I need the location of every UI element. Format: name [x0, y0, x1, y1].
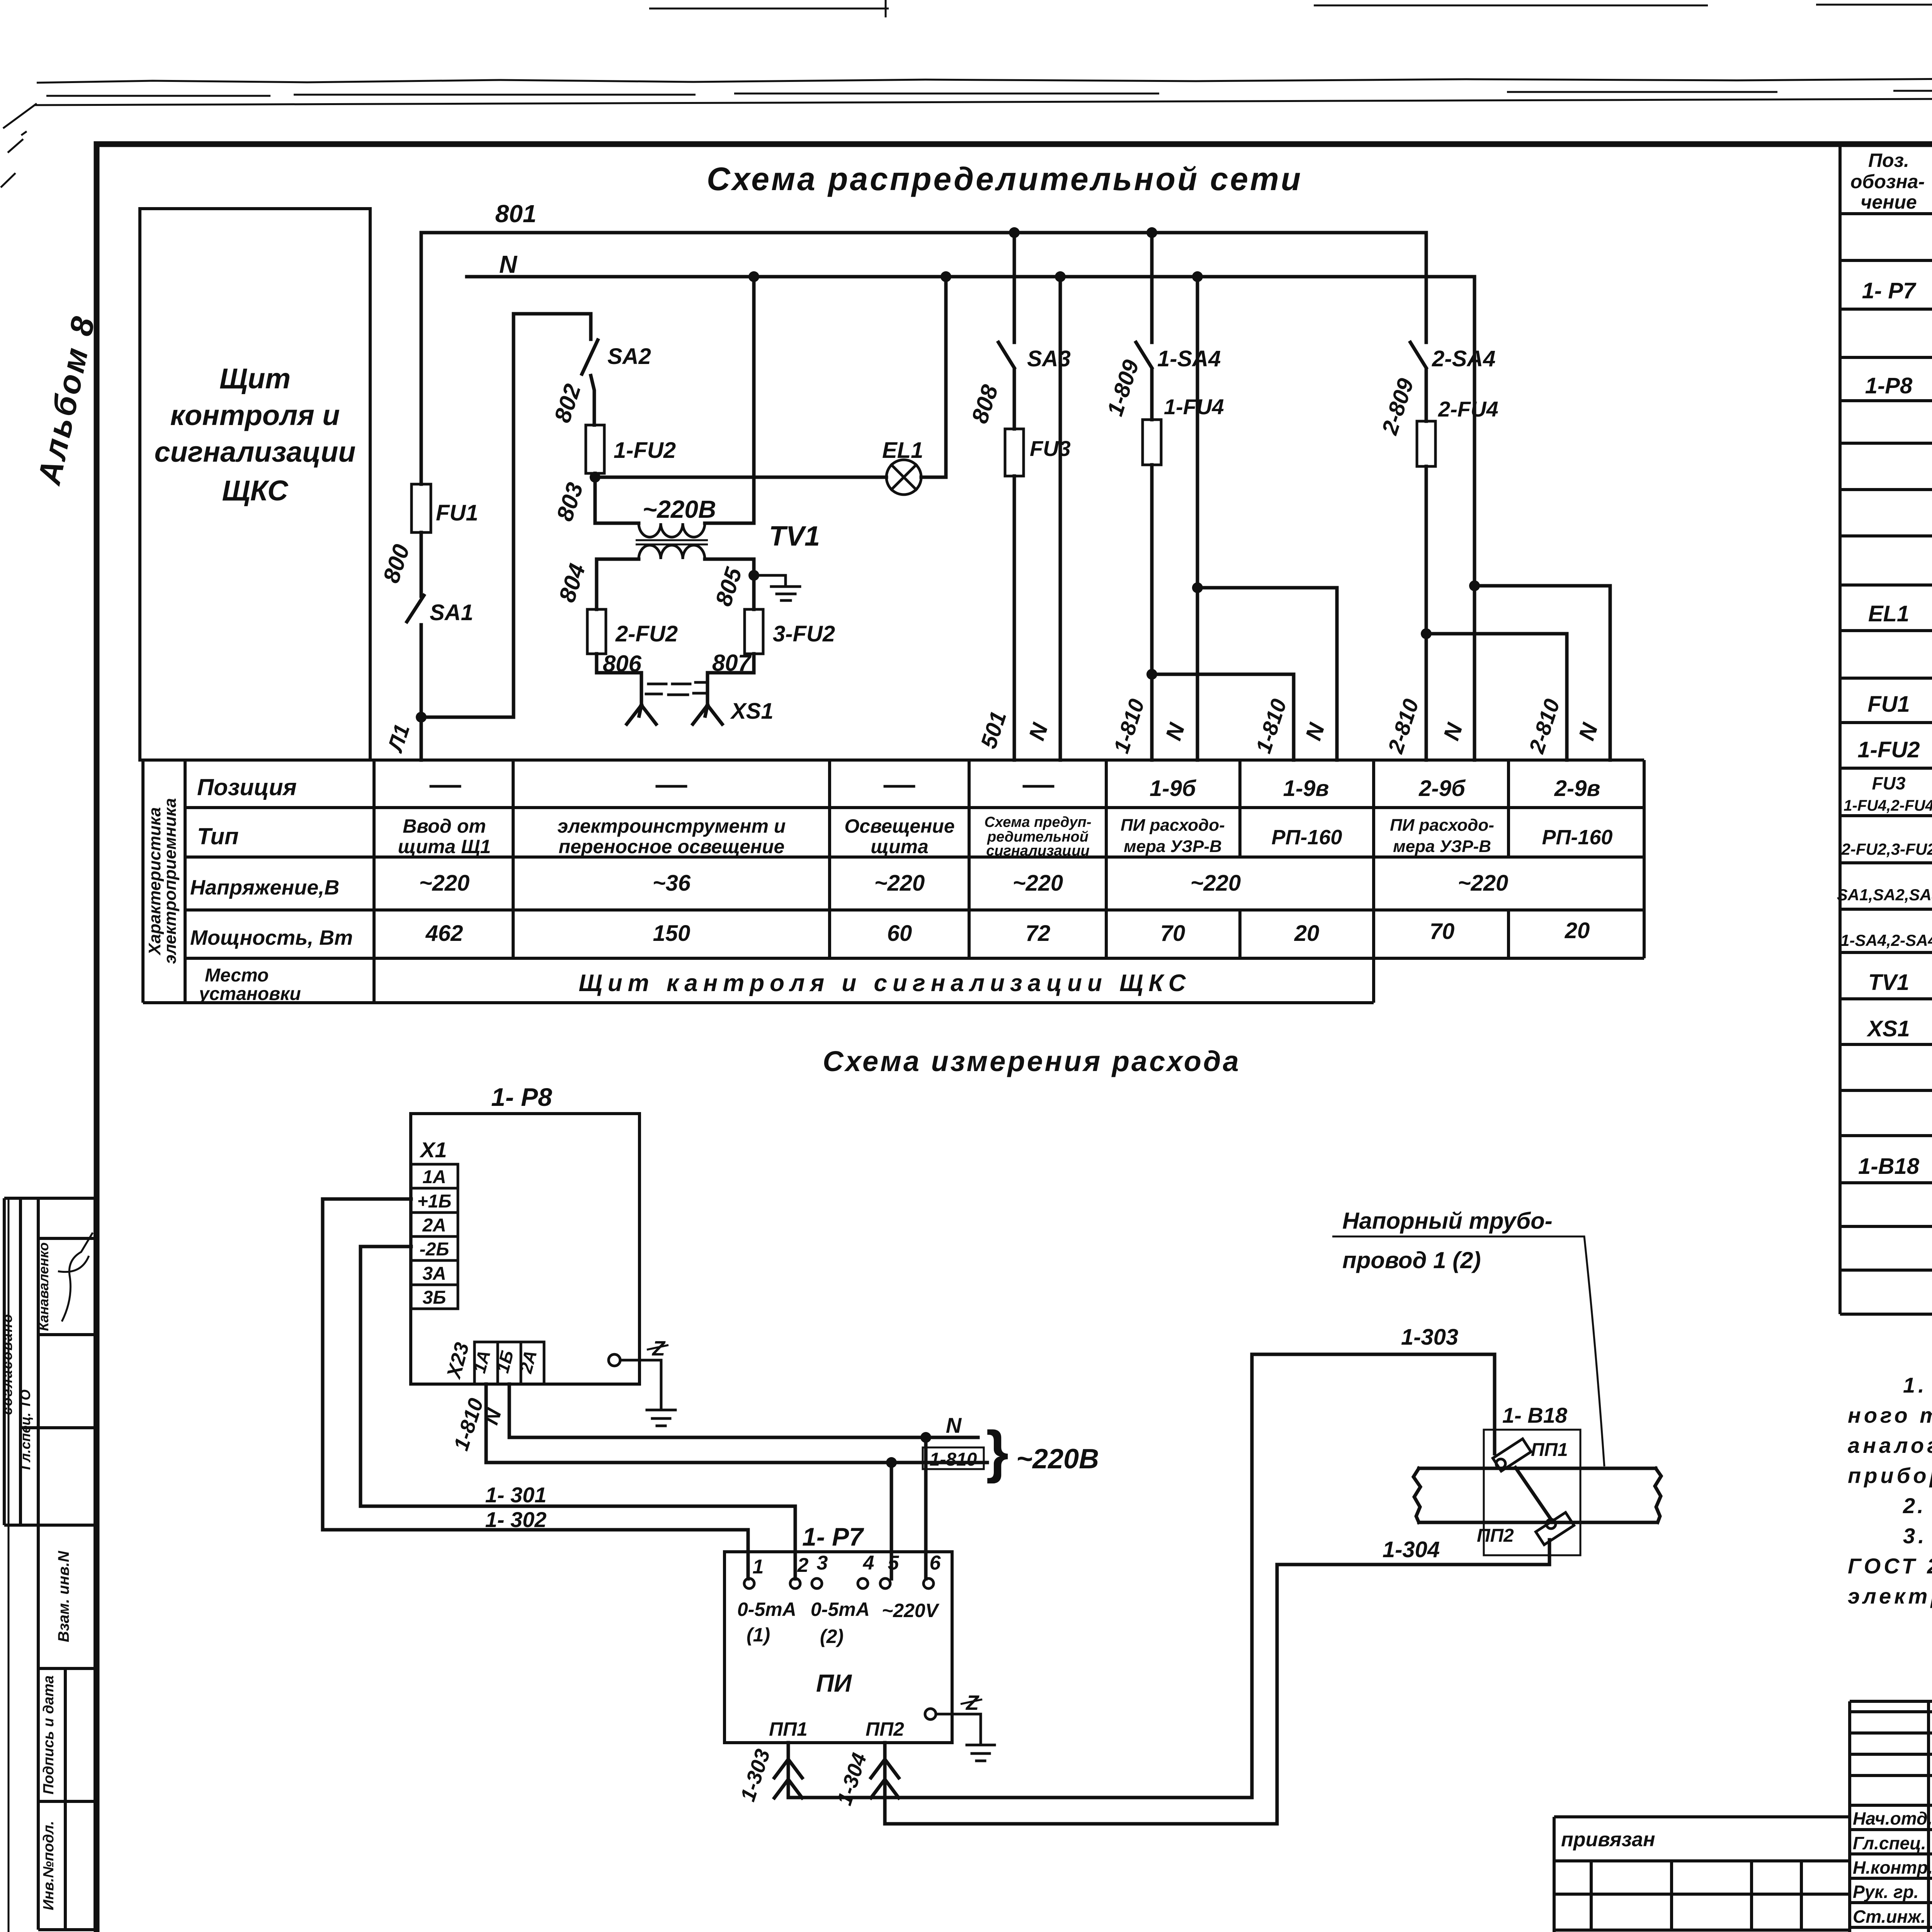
svg-text:~220: ~220: [874, 871, 925, 896]
svg-text:Щит: Щит: [219, 362, 291, 395]
svg-text:Мощность, Вт: Мощность, Вт: [190, 926, 353, 949]
svg-text:1-FU2: 1-FU2: [614, 438, 676, 463]
svg-text:Гл.спец. ТО: Гл.спец. ТО: [17, 1389, 33, 1470]
svg-text:X1: X1: [419, 1138, 447, 1162]
TV1 secondary winding: [639, 545, 705, 559]
TV1 primary right to N: [705, 277, 754, 523]
svg-text:Рук. гр.: Рук. гр.: [1853, 1882, 1919, 1902]
fuse 2-FU2: [587, 609, 606, 654]
wire 1-809 drop: [1150, 233, 1154, 342]
svg-text:~220: ~220: [419, 871, 470, 896]
recorder 1-P8 box: [411, 1114, 639, 1384]
svg-text:ПП1: ПП1: [769, 1718, 808, 1740]
svg-text:3Б: 3Б: [423, 1287, 446, 1308]
ground terminal 1-P8: [609, 1354, 620, 1366]
svg-text:согласовано: согласовано: [0, 1313, 15, 1415]
transducer PP1: [1493, 1439, 1531, 1471]
svg-text:3: 3: [817, 1552, 828, 1574]
svg-text:FU3: FU3: [1030, 436, 1071, 461]
svg-text:провод 1 (2): провод 1 (2): [1342, 1247, 1481, 1273]
svg-text:N: N: [499, 250, 518, 278]
wire to pin5: [890, 1463, 893, 1579]
svg-text:2-FU2,3-FU2: 2-FU2,3-FU2: [1841, 840, 1932, 858]
dot TV1 on N: [748, 271, 759, 282]
svg-text:обозна-: обозна-: [1850, 171, 1925, 192]
svg-text:мера УЗР-В: мера УЗР-В: [1124, 837, 1222, 856]
svg-text:70: 70: [1160, 921, 1185, 946]
lamp EL1: [886, 460, 921, 495]
svg-text:XS1: XS1: [730, 699, 774, 724]
svg-text:70: 70: [1430, 919, 1455, 944]
dot 805: [748, 570, 759, 581]
bus N: [467, 275, 1475, 279]
bus 801: [421, 231, 1426, 235]
svg-text:806: 806: [603, 651, 642, 677]
ground terminal PI: [925, 1709, 936, 1719]
svg-text:Н.контр.: Н.контр.: [1853, 1857, 1932, 1878]
ground wire PI: [936, 1714, 981, 1743]
svg-text:1-FU4,2-FU4: 1-FU4,2-FU4: [1844, 797, 1932, 814]
svg-text:1-FU2: 1-FU2: [1857, 737, 1920, 762]
svg-text:~220: ~220: [1013, 871, 1063, 896]
transducer unit 1-B18 box: [1484, 1430, 1580, 1555]
svg-text:ПП1: ПП1: [1531, 1440, 1568, 1460]
wire 501: [1013, 476, 1016, 760]
title block grid: [1850, 1701, 1932, 1932]
svg-text:SA1,SA2,SA3: SA1,SA2,SA3: [1837, 886, 1932, 904]
svg-text:Схема распределительной сети: Схема распределительной сети: [707, 161, 1303, 197]
svg-text:аналогична . Цифра 1 в левой: аналогична . Цифра 1 в левой части обозн…: [1848, 1433, 1932, 1458]
dot 2-810 split: [1421, 628, 1432, 639]
svg-text:(2): (2): [820, 1626, 844, 1647]
svg-text:Схема предуп-: Схема предуп-: [984, 814, 1091, 830]
dot N drop 2: [1192, 271, 1203, 282]
svg-text:~220: ~220: [1458, 871, 1509, 896]
svg-text:0-5mА: 0-5mА: [737, 1599, 796, 1620]
pipe leader line: [1332, 1236, 1604, 1466]
svg-text:сигнализации: сигнализации: [986, 843, 1090, 859]
svg-text:Ст.инж.: Ст.инж.: [1853, 1906, 1926, 1927]
switch SA1: [407, 595, 424, 622]
svg-text:электрических схемах ": электрических схемах ": [1848, 1584, 1932, 1608]
boxed label 1-810: [923, 1447, 984, 1469]
wire to pin6: [924, 1437, 928, 1579]
svg-text:XS1: XS1: [1866, 1016, 1910, 1041]
transformer TV1 primary wire: [595, 522, 639, 525]
svg-text:-2Б: -2Б: [420, 1239, 449, 1260]
svg-text:SA2: SA2: [607, 344, 651, 369]
switch 2-SA4: [1410, 342, 1426, 368]
outer thin left border: [8, 1198, 10, 1932]
svg-text:щита: щита: [871, 836, 929, 857]
wire N drop 2: [1196, 277, 1199, 760]
wire 800 drop: [420, 233, 423, 484]
svg-text:1: 1: [753, 1556, 764, 1578]
socket XS1 left plug: [627, 705, 656, 724]
svg-text:1- 301: 1- 301: [485, 1483, 547, 1507]
wire 803 to lamp: [595, 476, 886, 479]
svg-text:ного трубопровода 1. Для тр: ного трубопровода 1. Для трубопровода 2 …: [1848, 1403, 1932, 1427]
TV1 core: [636, 540, 708, 544]
wire 806: [597, 654, 641, 705]
svg-text:+1Б: +1Б: [417, 1191, 452, 1212]
switch SA3: [998, 342, 1014, 368]
dot pin5 tap: [886, 1457, 897, 1468]
wire N drop 3: [1473, 277, 1476, 760]
fuse 1-FU2: [586, 425, 604, 473]
fuse 1-FU4: [1143, 420, 1161, 465]
dot N3 split: [1469, 580, 1480, 591]
svg-text:Напорный трубо-: Напорный трубо-: [1342, 1208, 1553, 1234]
wire 808: [1013, 369, 1016, 429]
svg-text:привязан: привязан: [1561, 1828, 1655, 1851]
svg-text:150: 150: [653, 921, 690, 946]
cable chevrons 1-304: [871, 1759, 899, 1798]
characteristics table grid: [143, 760, 1644, 1003]
svg-text:переносное освещение: переносное освещение: [559, 836, 785, 857]
wire N drop 1: [1059, 277, 1062, 760]
svg-text:2: 2: [797, 1554, 809, 1577]
svg-text:20: 20: [1294, 921, 1320, 946]
fuse 3-FU2: [745, 609, 763, 654]
pressure pipe: [1413, 1468, 1661, 1522]
svg-text:FU3: FU3: [1872, 773, 1906, 793]
svg-text:~36: ~36: [653, 871, 691, 896]
left stamp inventory box: [38, 1525, 95, 1930]
svg-text:1-9б: 1-9б: [1150, 776, 1197, 801]
svg-text:Напряжение,В: Напряжение,В: [190, 876, 339, 899]
svg-text:1- Р7: 1- Р7: [1862, 278, 1917, 303]
svg-text:РП-160: РП-160: [1542, 826, 1613, 849]
svg-text:Позиция: Позиция: [197, 774, 297, 800]
svg-text:1- В18: 1- В18: [1502, 1403, 1568, 1427]
sheet edge dashed line: [46, 89, 1932, 96]
svg-text:1. Схема измерения расхода: 1. Схема измерения расхода выполнена для…: [1903, 1373, 1932, 1397]
fuse FU1: [412, 484, 431, 532]
svg-text:ЩКС: ЩКС: [222, 474, 289, 507]
svg-text:2. Перечень элементов привед: 2. Перечень элементов приведен на один т…: [1903, 1493, 1932, 1518]
svg-text:1-В18: 1-В18: [1858, 1154, 1920, 1179]
svg-text:~220: ~220: [1190, 871, 1241, 896]
wire 802: [591, 376, 594, 425]
svg-text:TV1: TV1: [769, 521, 820, 552]
svg-text:4: 4: [863, 1552, 874, 1574]
socket XS1 right plug: [693, 705, 722, 724]
position row dashes: [431, 785, 1053, 788]
svg-text:ПП2: ПП2: [866, 1718, 904, 1740]
svg-text:Канаваленко: Канаваленко: [36, 1242, 51, 1331]
dot N2 split: [1192, 582, 1203, 593]
svg-text:807: 807: [712, 650, 752, 676]
dot 1-810 split: [1146, 669, 1157, 680]
svg-text:2-9б: 2-9б: [1418, 776, 1466, 801]
svg-text:1-303: 1-303: [1401, 1325, 1458, 1350]
wire N from X23: [509, 1384, 978, 1437]
dot SA3 on 801: [1009, 227, 1020, 238]
switch SA2: [582, 340, 598, 374]
svg-text:1- Р8: 1- Р8: [491, 1083, 552, 1111]
svg-text:2-9в: 2-9в: [1554, 776, 1600, 801]
dot EL1 on N: [940, 271, 951, 282]
svg-text:РП-160: РП-160: [1272, 826, 1342, 849]
svg-text:6: 6: [930, 1552, 941, 1574]
terminal block X23: [474, 1342, 544, 1384]
ground wire 1-P8: [620, 1360, 661, 1408]
wire 2-809 drop: [1425, 233, 1428, 342]
svg-text:1- Р7: 1- Р7: [802, 1522, 864, 1551]
svg-text:3-FU2: 3-FU2: [773, 621, 835, 646]
svg-text:Инв.№подл.: Инв.№подл.: [41, 1821, 57, 1910]
svg-text:FU1: FU1: [436, 500, 478, 526]
svg-text:TV1: TV1: [1868, 970, 1909, 995]
top center tick: [885, 0, 887, 17]
svg-text:2-SA4: 2-SA4: [1432, 346, 1495, 371]
wire 804: [597, 559, 639, 609]
svg-text:FU1: FU1: [1867, 692, 1910, 717]
wire L1: [420, 625, 423, 760]
dot N drop 1: [1055, 271, 1066, 282]
svg-text:ПИ: ПИ: [816, 1669, 852, 1697]
fuse 2-FU4: [1417, 421, 1435, 466]
svg-text:мера УЗР-В: мера УЗР-В: [1393, 837, 1491, 856]
svg-text:2А: 2А: [422, 1215, 446, 1236]
svg-text:Ввод от: Ввод от: [403, 815, 486, 837]
svg-text:Тип: Тип: [197, 823, 239, 849]
branch wire to SA2 loop: [421, 314, 591, 717]
svg-text:1-304: 1-304: [1383, 1537, 1440, 1562]
svg-text:3. Условные обозначения приб: 3. Условные обозначения приборов приняты…: [1903, 1524, 1932, 1548]
svg-text:сигнализации: сигнализации: [155, 436, 356, 468]
wire 1-304 from PP2: [885, 1540, 1549, 1824]
svg-text:2-FU4: 2-FU4: [1438, 397, 1498, 421]
wire +1Б to 1-302: [323, 1199, 748, 1579]
svg-text:Нач.отд.: Нач.отд.: [1853, 1808, 1932, 1828]
svg-text:Поз.: Поз.: [1868, 150, 1909, 171]
wire 1-303 from PP1: [788, 1354, 1495, 1798]
svg-text:Щит кантроля и сигнализа: Щит кантроля и сигнализации ЩКС: [579, 970, 1191, 997]
svg-text:1-9в: 1-9в: [1283, 776, 1329, 801]
svg-text:1- 302: 1- 302: [485, 1507, 547, 1532]
parts table grid: [1840, 142, 1932, 1314]
left stamp approvals box: [4, 1198, 95, 1525]
ground symbol TV1: [771, 587, 800, 600]
ground symbol PI: [967, 1745, 995, 1761]
terminal block X1: [411, 1164, 458, 1309]
acoustic path: [1515, 1468, 1553, 1522]
wire 1-810 from X23: [486, 1384, 987, 1463]
branch N2 b: [1197, 588, 1337, 760]
cable chevrons 1-303: [774, 1759, 802, 1798]
transducer PP2: [1536, 1512, 1574, 1545]
wire 805 right: [705, 559, 754, 609]
svg-text:5: 5: [888, 1552, 900, 1574]
lamp to N wire: [921, 277, 946, 477]
svg-text:1-SA4,2-SA4: 1-SA4,2-SA4: [1840, 931, 1932, 949]
svg-text:Подпись и дата: Подпись и дата: [41, 1675, 57, 1794]
ground symbol 1-P8: [647, 1410, 675, 1426]
branch 2-810 b: [1426, 634, 1567, 760]
sheet top torn-edge marks: [649, 4, 1932, 9]
svg-text:EL1: EL1: [1868, 601, 1909, 626]
svg-text:3А: 3А: [422, 1264, 446, 1284]
svg-text:установки: установки: [198, 984, 301, 1004]
svg-text:~220В: ~220В: [643, 495, 716, 523]
svg-text:1-810: 1-810: [930, 1449, 977, 1470]
svg-text:(1): (1): [747, 1624, 770, 1646]
svg-text:Схема измерения расхода: Схема измерения расхода: [823, 1045, 1241, 1077]
branch 1-810 b: [1152, 674, 1294, 760]
svg-text:ПП2: ПП2: [1477, 1526, 1514, 1546]
panel box ЩКС: [140, 209, 370, 760]
svg-text:~220В: ~220В: [1016, 1444, 1099, 1475]
branch N3 b: [1475, 586, 1610, 760]
wire 800 below fuse: [420, 532, 423, 596]
svg-text:Взам. инв.N: Взам. инв.N: [55, 1551, 72, 1642]
svg-text:20: 20: [1565, 918, 1590, 943]
svg-text:N: N: [946, 1413, 962, 1437]
svg-text:контроля и: контроля и: [170, 399, 340, 431]
svg-text:2-FU2: 2-FU2: [615, 621, 678, 646]
svg-text:801: 801: [495, 200, 537, 228]
sheet edge wavy line: [37, 78, 1932, 83]
svg-text:чение: чение: [1861, 191, 1917, 213]
svg-text:Гл.спец.: Гл.спец.: [1853, 1833, 1926, 1853]
svg-text:щита Щ1: щита Щ1: [398, 836, 491, 857]
svg-text:1-Р8: 1-Р8: [1865, 373, 1913, 398]
svg-text:60: 60: [887, 921, 912, 946]
wire 807: [707, 654, 754, 705]
wire 803: [594, 473, 597, 523]
svg-text:Место: Место: [205, 965, 269, 986]
svg-text:1А: 1А: [422, 1167, 446, 1187]
svg-text:1-SA4: 1-SA4: [1157, 346, 1221, 371]
approval signature: [58, 1233, 93, 1321]
node dot after SA1: [416, 712, 427, 723]
top-left paper corner diagonals: [1, 104, 37, 187]
svg-text:приборов и маркировок: приборов и маркировок цепей меняется на …: [1848, 1463, 1932, 1488]
svg-text:~220V: ~220V: [882, 1600, 940, 1621]
dot pin6 tap: [920, 1432, 931, 1443]
svg-text:ПИ расходо-: ПИ расходо-: [1121, 816, 1225, 835]
svg-text:}: }: [986, 1419, 1009, 1484]
TV1 primary winding: [639, 523, 705, 537]
wire 808 drop: [1013, 233, 1016, 342]
svg-text:EL1: EL1: [882, 438, 923, 463]
switch 1-SA4: [1136, 342, 1152, 368]
meter PI box 1-P7: [724, 1552, 952, 1743]
wire -2Б to 1-301: [361, 1247, 795, 1579]
svg-text:Освещение: Освещение: [844, 815, 954, 837]
svg-text:ПИ расходо-: ПИ расходо-: [1390, 816, 1494, 835]
svg-text:1-FU4: 1-FU4: [1164, 395, 1224, 419]
wire 1-810: [1150, 369, 1154, 760]
XS1 dashes: [646, 682, 705, 695]
attach box: [1554, 1817, 1850, 1932]
PI pins: [744, 1578, 754, 1588]
svg-text:0-5mА: 0-5mА: [811, 1599, 870, 1620]
ground tap TV1: [754, 575, 786, 585]
wire 2-810: [1425, 369, 1428, 760]
svg-text:электроприемника: электроприемника: [161, 798, 180, 964]
node 803 dot: [590, 472, 600, 483]
svg-text:электроинструмент и: электроинструмент и: [558, 815, 786, 837]
svg-text:462: 462: [425, 921, 463, 946]
svg-text:SA1: SA1: [430, 600, 473, 625]
thin inner sheet line: [34, 96, 1932, 105]
svg-text:72: 72: [1026, 921, 1051, 946]
svg-text:ГОСТ 2.710-81 „Обозначения: ГОСТ 2.710-81 „Обозначения буквенно - ци…: [1848, 1554, 1932, 1578]
svg-text:SA3: SA3: [1027, 346, 1071, 371]
dot 1-SA4 on 801: [1146, 227, 1157, 238]
fuse FU3: [1005, 429, 1024, 476]
